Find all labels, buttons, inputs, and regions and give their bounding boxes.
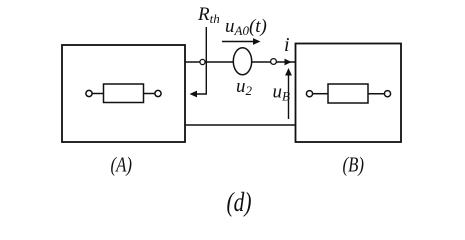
svg-text:i: i <box>284 34 290 56</box>
node (left, on top wire) <box>200 59 205 64</box>
resistor (network A) <box>86 84 161 103</box>
resistor (network B) <box>306 84 390 103</box>
svg-text:(d): (d) <box>227 187 252 217</box>
source u_A0 (ellipse) <box>233 48 251 75</box>
wire with current arrowhead into box B <box>276 61 295 63</box>
node (right, on top wire) <box>271 59 277 65</box>
network box A <box>62 45 185 142</box>
source direction arrow (under u_A0 label) <box>222 41 256 43</box>
network box B <box>296 44 402 143</box>
u_B reference arrow (up) <box>288 72 290 119</box>
wire: top, box A to source <box>185 61 234 63</box>
wire: source to right node <box>252 61 271 63</box>
svg-text:(A): (A) <box>111 153 133 177</box>
svg-text:(B): (B) <box>343 153 365 177</box>
R_th pointer arrow (down then left) <box>193 27 207 94</box>
wire: bottom, box A to box B <box>185 124 296 126</box>
